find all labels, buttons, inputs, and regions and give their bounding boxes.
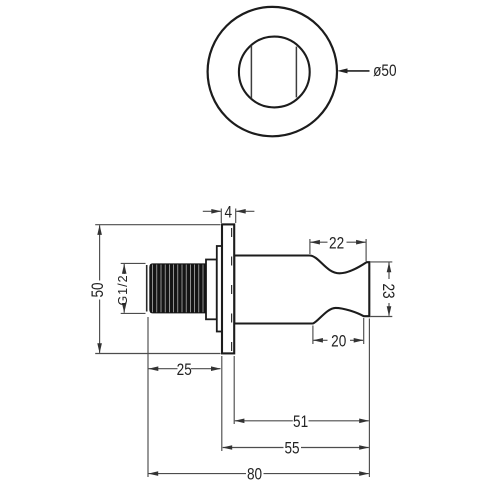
svg-text:51: 51 (293, 413, 308, 432)
svg-text:55: 55 (284, 439, 299, 458)
svg-text:ø50: ø50 (373, 62, 396, 81)
svg-text:50: 50 (89, 282, 108, 297)
svg-text:G1/2: G1/2 (116, 274, 130, 305)
svg-text:25: 25 (177, 361, 192, 380)
svg-text:22: 22 (329, 234, 344, 253)
svg-text:20: 20 (331, 332, 346, 351)
svg-text:23: 23 (378, 283, 397, 298)
svg-text:4: 4 (225, 203, 233, 222)
svg-text:80: 80 (247, 465, 262, 484)
